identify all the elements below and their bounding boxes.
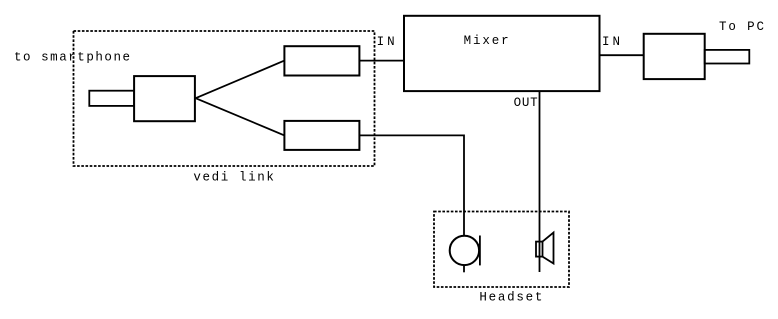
microphone side bar [479, 236, 481, 266]
pc adapter body [644, 34, 705, 79]
dashed box Headset [434, 212, 569, 288]
svg-text:Mixer: Mixer [464, 34, 509, 48]
wire split upper [196, 61, 285, 99]
svg-text:vedi link: vedi link [193, 170, 274, 184]
wire upper connector to mixer [359, 60, 404, 62]
splitter lower connector [284, 121, 359, 150]
microphone circle [450, 236, 479, 265]
box Mixer [404, 16, 600, 91]
speaker driver box [536, 242, 543, 257]
svg-text:to smartphone: to smartphone [14, 50, 130, 64]
speaker horn [543, 233, 554, 264]
pc adapter plug tip [705, 50, 750, 64]
svg-text:To PC: To PC [719, 20, 764, 34]
dashed box vedi link [74, 31, 375, 166]
svg-text:OUT: OUT [514, 96, 538, 110]
microphone stem [463, 264, 465, 272]
svg-text:Headset: Headset [479, 290, 542, 304]
wire mixer to pc adapter [600, 54, 644, 56]
wire mixer OUT to speaker [539, 91, 541, 272]
wire split lower [196, 98, 285, 135]
smartphone plug body [134, 76, 195, 121]
splitter upper connector [284, 46, 359, 75]
smartphone plug tip [89, 91, 134, 106]
wire lower connector to mic [359, 135, 464, 235]
